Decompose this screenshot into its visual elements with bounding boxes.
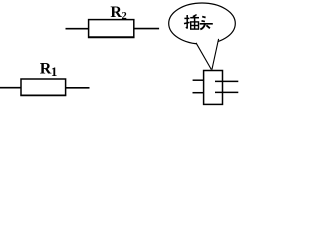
svg-text:2: 2 bbox=[122, 11, 127, 22]
svg-text:1: 1 bbox=[51, 64, 58, 79]
